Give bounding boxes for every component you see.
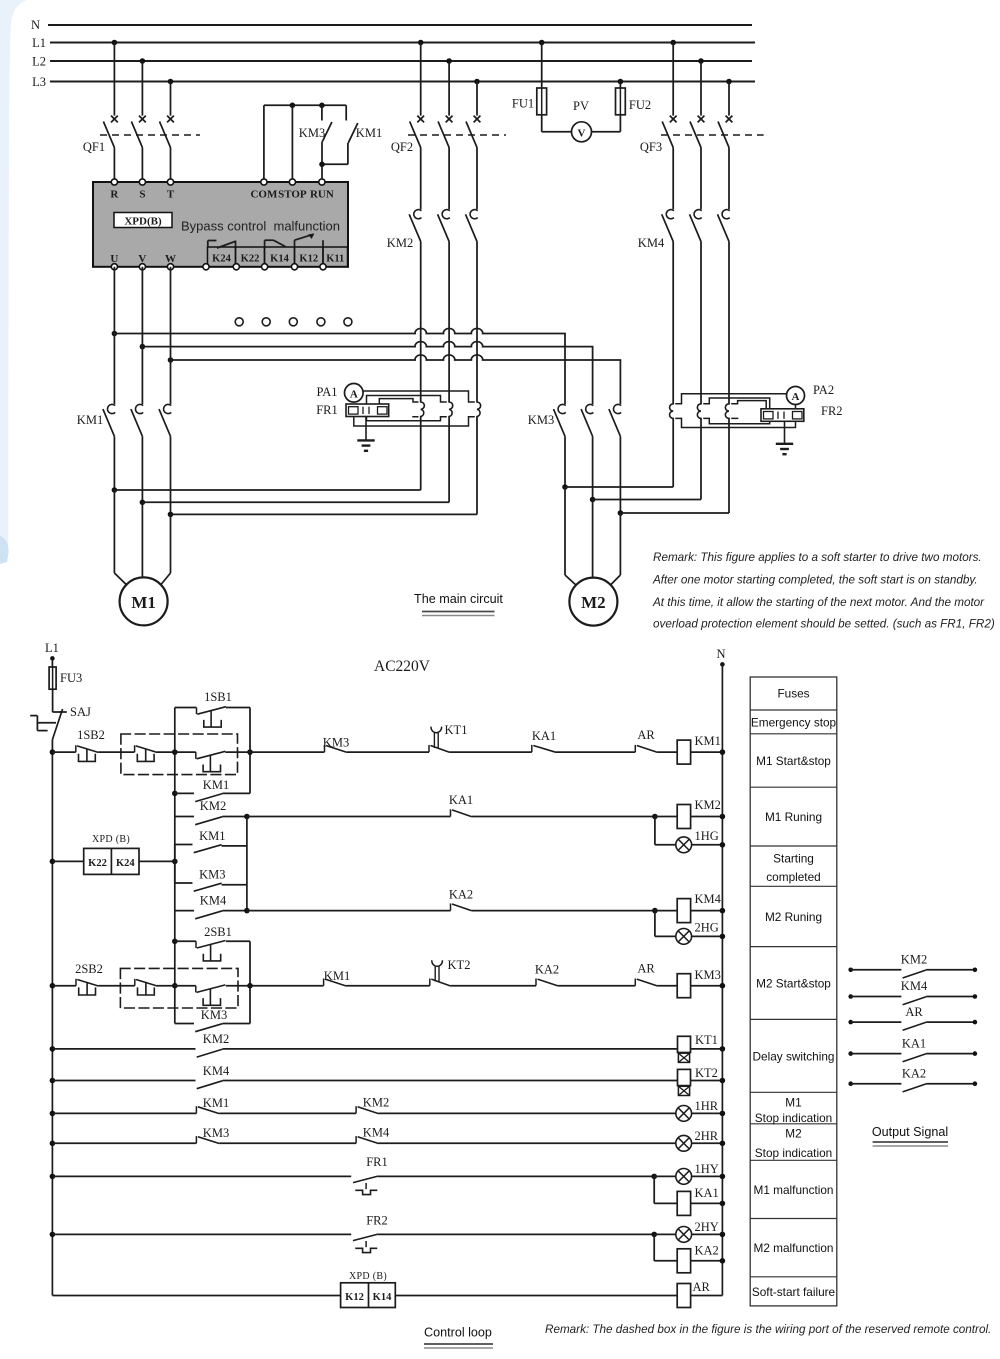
starter relay changeover arm K12-K11: [295, 234, 324, 247]
svg-text:U: U: [110, 253, 118, 265]
svg-text:M1 malfunction: M1 malfunction: [754, 1183, 834, 1197]
svg-text:KM3: KM3: [323, 736, 349, 750]
wire 2SB1 parallel frame: [175, 941, 253, 1023]
svg-text:FU3: FU3: [60, 671, 82, 685]
svg-text:Soft-start failure: Soft-start failure: [752, 1285, 836, 1299]
svg-text:KM2: KM2: [387, 236, 413, 250]
wire KA1 branch: [654, 1176, 677, 1203]
aux contact KM1 (rung7): [196, 1096, 229, 1114]
svg-text:Control loop: Control loop: [424, 1326, 492, 1340]
svg-text:KA2: KA2: [902, 1066, 926, 1080]
svg-text:L2: L2: [32, 55, 46, 69]
svg-text:KT2: KT2: [448, 958, 471, 972]
svg-text:1SB2: 1SB2: [77, 728, 105, 742]
interlock contact KM1 (rung4): [324, 969, 351, 986]
net N (neutral rail): [31, 18, 752, 32]
wire rung1 left: [50, 749, 175, 755]
starter relay terminals K24 K22 K14 K12 K11: [203, 247, 348, 270]
svg-text:2SB2: 2SB2: [75, 962, 103, 976]
output signal contact KM2: [848, 953, 977, 979]
svg-text:QF2: QF2: [391, 140, 413, 154]
wire KM3 interlock branch: [175, 861, 247, 884]
relay contact KA1 (rung2): [449, 793, 473, 817]
output signal contact KA2: [848, 1066, 977, 1092]
indicator lamp 1HY: [676, 1162, 725, 1184]
indicator lamp 2HR: [676, 1129, 725, 1151]
svg-text:KM2: KM2: [203, 1032, 229, 1046]
wire KM4 output to motor bus: [673, 242, 729, 514]
wire 1HG branch: [655, 817, 676, 845]
svg-text:KM2: KM2: [901, 953, 927, 967]
wire 1SB1 parallel frame: [175, 708, 253, 794]
wire KM1 output bus phase 3: [168, 512, 477, 518]
svg-text:A: A: [792, 391, 800, 403]
svg-text:KA1: KA1: [449, 793, 473, 807]
circuit breaker QF2: [391, 40, 506, 179]
svg-text:KM2: KM2: [695, 798, 721, 812]
title Control loop: [424, 1326, 493, 1349]
svg-text:KM3: KM3: [199, 868, 225, 882]
aux contact KM4 (rung6): [197, 1064, 230, 1089]
svg-text:Emergency stop: Emergency stop: [751, 715, 837, 729]
interlock contact KM3 (XPD): [194, 868, 226, 892]
svg-text:AR: AR: [693, 1280, 711, 1294]
svg-text:KM4: KM4: [638, 236, 665, 250]
svg-text:KM2: KM2: [363, 1096, 389, 1110]
svg-text:M2: M2: [785, 1127, 801, 1141]
terminal block K12 K14 (XPD): [341, 1271, 396, 1308]
aux contact KM4 (rung8): [356, 1126, 390, 1144]
motor M1: [114, 490, 170, 625]
wire left branch rail: [172, 708, 178, 1024]
voltmeter PV: [542, 99, 621, 142]
svg-text:Bypass control malfunction: Bypass control malfunction: [181, 219, 340, 234]
pushbutton 1SB2 (M1 stop): [76, 728, 105, 761]
svg-text:PA2: PA2: [813, 383, 834, 397]
svg-text:FR2: FR2: [366, 1214, 388, 1228]
contactor KM1 bypass main contacts: [77, 334, 171, 515]
svg-text:W: W: [165, 253, 176, 265]
svg-text:V: V: [138, 253, 146, 265]
svg-text:KM1: KM1: [356, 126, 382, 140]
ammeter PA1: [316, 384, 363, 403]
wire U V W to bypass: [114, 267, 170, 360]
svg-text:completed: completed: [766, 870, 820, 884]
aux contact KM2 (rung7): [356, 1096, 389, 1114]
svg-text:M1 Start&stop: M1 Start&stop: [756, 754, 831, 768]
svg-text:K12: K12: [345, 1292, 364, 1303]
svg-text:PV: PV: [573, 99, 589, 113]
overload relay FR1 sensing loops: [421, 402, 481, 417]
svg-text:FR1: FR1: [366, 1155, 388, 1169]
svg-text:Fuses: Fuses: [777, 687, 809, 701]
indicator lamp 2HG: [676, 921, 725, 945]
wire rung7 (M1 stop ind): [50, 1111, 676, 1117]
svg-text:KM3: KM3: [695, 968, 721, 982]
wire KM1 output bus phase 2: [140, 500, 450, 506]
svg-text:KT1: KT1: [695, 1033, 718, 1047]
interlock contact KM1 (XPD): [194, 829, 226, 853]
overload relay FR2 wiring frame: [676, 394, 796, 428]
svg-text:Starting: Starting: [773, 852, 814, 866]
svg-text:FR2: FR2: [821, 404, 843, 418]
wire M2 feed phase 2: [590, 497, 701, 503]
relay contact AR (rung4): [635, 962, 657, 986]
pushbutton 2SB2 (M2 stop): [75, 962, 103, 995]
circuit breaker QF3: [640, 40, 764, 179]
svg-text:V: V: [578, 127, 586, 139]
svg-text:KM3: KM3: [299, 126, 325, 140]
starter relay contact K14: [265, 240, 286, 247]
net L3 (phase rail): [32, 75, 755, 89]
svg-text:KA2: KA2: [695, 1244, 719, 1258]
coil KM3: [677, 968, 725, 998]
relay contact KA2 (rung4): [535, 963, 559, 986]
coil AR: [677, 1280, 722, 1308]
wire starter output bus phase W: [168, 355, 621, 363]
ammeter PA2: [787, 383, 835, 405]
coil KM2: [677, 798, 725, 829]
wire rung8 (M2 stop ind): [50, 1141, 676, 1147]
svg-text:1HY: 1HY: [695, 1162, 719, 1176]
wire KM2 output to motor bus: [421, 242, 477, 515]
wire rung10 (M2 malfunction): [50, 1232, 676, 1238]
overload relay FR1 wiring frame: [354, 391, 474, 426]
svg-text:L1: L1: [45, 641, 59, 655]
svg-text:2HR: 2HR: [695, 1129, 719, 1143]
wire interlock vertical: [246, 817, 248, 911]
starter control terminals COM STOP RUN: [250, 179, 333, 201]
soft starter model label XPD(B): [114, 213, 172, 228]
title Output Signal: [872, 1125, 948, 1146]
svg-text:M2 malfunction: M2 malfunction: [754, 1241, 834, 1255]
seal-in contact KM1: [195, 778, 229, 802]
svg-text:KM1: KM1: [203, 778, 229, 792]
wire rung6 (delay 2): [50, 1078, 678, 1084]
svg-text:S: S: [139, 189, 145, 201]
svg-text:KM1: KM1: [199, 829, 225, 843]
svg-text:AR: AR: [637, 728, 655, 742]
wire rung5 (delay 1): [50, 1046, 678, 1052]
svg-text:M1: M1: [785, 1096, 801, 1110]
svg-text:1HG: 1HG: [695, 829, 719, 843]
svg-text:AR: AR: [905, 1005, 923, 1019]
timed contact KT1: [429, 723, 467, 752]
output signal contact KA1: [848, 1036, 977, 1062]
svg-text:N: N: [31, 18, 40, 32]
pushbutton remote stop M1: [135, 745, 157, 761]
dashed remote port box (M1): [121, 734, 238, 775]
pushbutton 1SB1 (M1 start): [197, 690, 232, 727]
svg-text:AC220V: AC220V: [374, 658, 431, 675]
svg-text:Output Signal: Output Signal: [872, 1125, 948, 1139]
svg-text:KA1: KA1: [695, 1186, 719, 1200]
pushbutton remote start M2: [196, 985, 226, 1005]
wire rung4 left: [50, 983, 175, 989]
svg-text:K22: K22: [88, 858, 107, 869]
output signal contact AR: [848, 1005, 977, 1031]
svg-text:K24: K24: [116, 858, 135, 869]
text AC220V: [374, 658, 431, 675]
auxiliary contact KM3 (run command): [299, 105, 332, 164]
svg-text:QF3: QF3: [640, 140, 662, 154]
svg-text:KM4: KM4: [901, 979, 928, 993]
spare terminal dots row: [235, 318, 352, 326]
svg-text:KM4: KM4: [200, 894, 227, 908]
wire rung3 (M2 running): [175, 908, 677, 914]
thermal contact FR1: [353, 1155, 388, 1195]
svg-text:A: A: [350, 388, 358, 400]
svg-text:FR1: FR1: [316, 403, 338, 417]
svg-text:N: N: [716, 647, 725, 661]
svg-text:KT2: KT2: [695, 1066, 718, 1080]
pushbutton remote stop M2: [135, 979, 157, 995]
overload relay FR1 heater element: [316, 403, 388, 417]
net L2 (phase rail): [32, 55, 752, 69]
coil KA1: [677, 1186, 725, 1215]
timed contact KT2: [430, 958, 471, 986]
svg-text:Stop indication: Stop indication: [755, 1111, 832, 1125]
node N (control neutral): [716, 647, 725, 1296]
svg-text:2SB1: 2SB1: [204, 925, 232, 939]
svg-text:At this time, it allow the sta: At this time, it allow the starting of t…: [652, 596, 985, 609]
svg-text:XPD (B): XPD (B): [349, 1271, 387, 1282]
starter relay contact K24-K22: [208, 241, 236, 249]
svg-text:KM4: KM4: [203, 1064, 230, 1078]
svg-text:M2 Start&stop: M2 Start&stop: [756, 977, 831, 991]
svg-text:KA1: KA1: [902, 1036, 926, 1050]
svg-text:KM3: KM3: [201, 1008, 227, 1022]
timer coil KT1: [678, 1033, 726, 1062]
svg-text:Delay switching: Delay switching: [753, 1049, 835, 1063]
svg-text:L1: L1: [32, 36, 46, 50]
svg-text:K22: K22: [241, 254, 260, 265]
wire KM1 output bus phase 1: [112, 487, 421, 493]
svg-text:M1 Runing: M1 Runing: [765, 810, 822, 824]
output signal contact KM4: [848, 979, 977, 1005]
wire 2HG branch: [655, 911, 676, 937]
wire COM STOP pilot harness: [264, 103, 346, 180]
svg-text:PA1: PA1: [316, 385, 337, 399]
svg-text:M2: M2: [581, 593, 606, 612]
fuse FU2: [616, 79, 652, 132]
coil KM1: [677, 734, 725, 764]
svg-text:1HR: 1HR: [695, 1099, 719, 1113]
overload relay FR2 heater element: [761, 404, 843, 421]
svg-text:K12: K12: [299, 254, 318, 265]
relay contact KA1 (rung1): [532, 729, 556, 752]
soft starter caption: [181, 219, 340, 234]
svg-text:KM1: KM1: [77, 413, 103, 427]
wire M2 feed phase 1: [562, 484, 673, 490]
svg-text:1SB1: 1SB1: [204, 690, 232, 704]
remark note (control loop): [545, 1323, 991, 1336]
node L1 (control feed): [45, 641, 59, 667]
svg-text:COM: COM: [250, 189, 278, 201]
wire starter output bus phase V: [140, 342, 593, 350]
svg-text:KT1: KT1: [445, 723, 468, 737]
svg-text:KM3: KM3: [203, 1126, 229, 1140]
wire starter output bus phase U: [112, 328, 565, 336]
svg-text:L3: L3: [32, 75, 46, 89]
auxiliary contact KM1 (run command): [319, 105, 382, 179]
indicator lamp 2HY: [676, 1220, 725, 1242]
svg-text:2HG: 2HG: [695, 921, 719, 935]
interlock contact KM3 (rung1): [323, 736, 349, 753]
ground symbol (FR1): [357, 417, 374, 451]
svg-text:KA1: KA1: [532, 729, 556, 743]
svg-text:FU1: FU1: [512, 97, 534, 111]
wire rung11 right: [395, 1295, 677, 1297]
starter input terminals R S T: [110, 179, 174, 201]
indicator lamp 1HR: [676, 1099, 725, 1121]
terminal block K22 K24 (XPD): [50, 834, 175, 874]
svg-text:SAJ: SAJ: [70, 705, 91, 719]
relay contact KA2 (rung3): [449, 888, 473, 911]
svg-text:RUN: RUN: [310, 189, 334, 201]
net L1 (phase rail): [32, 36, 755, 50]
contactor KM2 main contacts: [387, 179, 477, 250]
net control phase bus: [51, 752, 53, 1295]
svg-text:K14: K14: [373, 1292, 392, 1303]
soft starter U1 body: [93, 182, 348, 267]
seal contact KM4: [195, 894, 227, 919]
svg-text:T: T: [167, 189, 175, 201]
svg-text:Remark: The dashed box in the: Remark: The dashed box in the figure is …: [545, 1323, 991, 1336]
fuse FU3: [49, 667, 82, 712]
svg-text:KM4: KM4: [695, 892, 722, 906]
motor M2: [565, 487, 620, 626]
svg-text:KM4: KM4: [363, 1126, 390, 1140]
wire rung4 right: [250, 985, 677, 987]
svg-text:Remark: This figure applies to: Remark: This figure applies to a soft st…: [653, 551, 982, 564]
circuit breaker QF1: [83, 40, 200, 179]
wire M2 feed phase 3: [618, 510, 729, 516]
title The main circuit: [414, 592, 503, 616]
svg-text:K14: K14: [270, 254, 289, 265]
remark note (main circuit): [652, 551, 995, 631]
seal-in contact KM3: [195, 1008, 227, 1032]
svg-text:M2 Runing: M2 Runing: [765, 910, 822, 924]
svg-text:K24: K24: [212, 254, 231, 265]
relay contact AR (rung1): [635, 728, 657, 752]
wire rung9 (M1 malfunction): [50, 1174, 676, 1180]
svg-text:M1: M1: [131, 593, 156, 612]
svg-text:KM2: KM2: [200, 799, 226, 813]
ground symbol (FR2): [776, 421, 793, 454]
contactor KM3 main contacts: [528, 334, 621, 514]
svg-text:KA2: KA2: [449, 888, 473, 902]
wire rung2 (M1 running): [175, 814, 677, 820]
emergency switch SAJ: [30, 705, 91, 752]
svg-text:XPD(B): XPD(B): [124, 216, 162, 228]
pushbutton remote start M1: [196, 751, 226, 771]
indicator lamp 1HG: [676, 829, 725, 853]
wire rung1 right: [250, 751, 677, 753]
aux contact KM2 (rung5): [197, 1032, 230, 1057]
svg-text:STOP: STOP: [278, 189, 307, 201]
wire KA2 branch: [654, 1234, 677, 1260]
svg-text:2HY: 2HY: [695, 1220, 719, 1234]
svg-text:QF1: QF1: [83, 140, 105, 154]
wire rung11 left: [52, 1295, 340, 1297]
seal contact KM2: [195, 799, 226, 825]
svg-text:KM1: KM1: [203, 1096, 229, 1110]
wire KM1 interlock branch: [175, 845, 247, 862]
pushbutton 2SB1 (M2 start): [196, 925, 232, 961]
thermal contact FR2: [353, 1214, 388, 1253]
svg-text:Stop indication: Stop indication: [755, 1146, 832, 1160]
svg-text:XPD (B): XPD (B): [92, 834, 130, 845]
svg-text:K11: K11: [326, 254, 344, 265]
svg-text:KM1: KM1: [324, 969, 350, 983]
aux contact KM3 (rung8): [196, 1126, 229, 1144]
svg-text:KM3: KM3: [528, 413, 554, 427]
svg-text:AR: AR: [637, 962, 655, 976]
svg-text:After one motor starting compl: After one motor starting completed, the …: [652, 574, 978, 587]
coil KM4: [677, 892, 725, 923]
fuse FU1: [512, 40, 547, 132]
svg-text:The main circuit: The main circuit: [414, 592, 503, 606]
svg-text:KA2: KA2: [535, 963, 559, 977]
contactor KM4 main contacts: [638, 179, 729, 250]
svg-text:FU2: FU2: [629, 98, 651, 112]
dashed remote port box (M2): [120, 968, 238, 1008]
svg-text:KM1: KM1: [695, 734, 721, 748]
overload relay FR2 sensing loops: [670, 404, 729, 419]
svg-text:R: R: [110, 189, 119, 201]
svg-text:overload protection element sh: overload protection element should be se…: [653, 618, 995, 631]
timer coil KT2: [678, 1066, 726, 1096]
coil KA2: [677, 1244, 725, 1273]
starter output terminals U V W: [110, 253, 176, 270]
annunciator table: [750, 677, 837, 1306]
